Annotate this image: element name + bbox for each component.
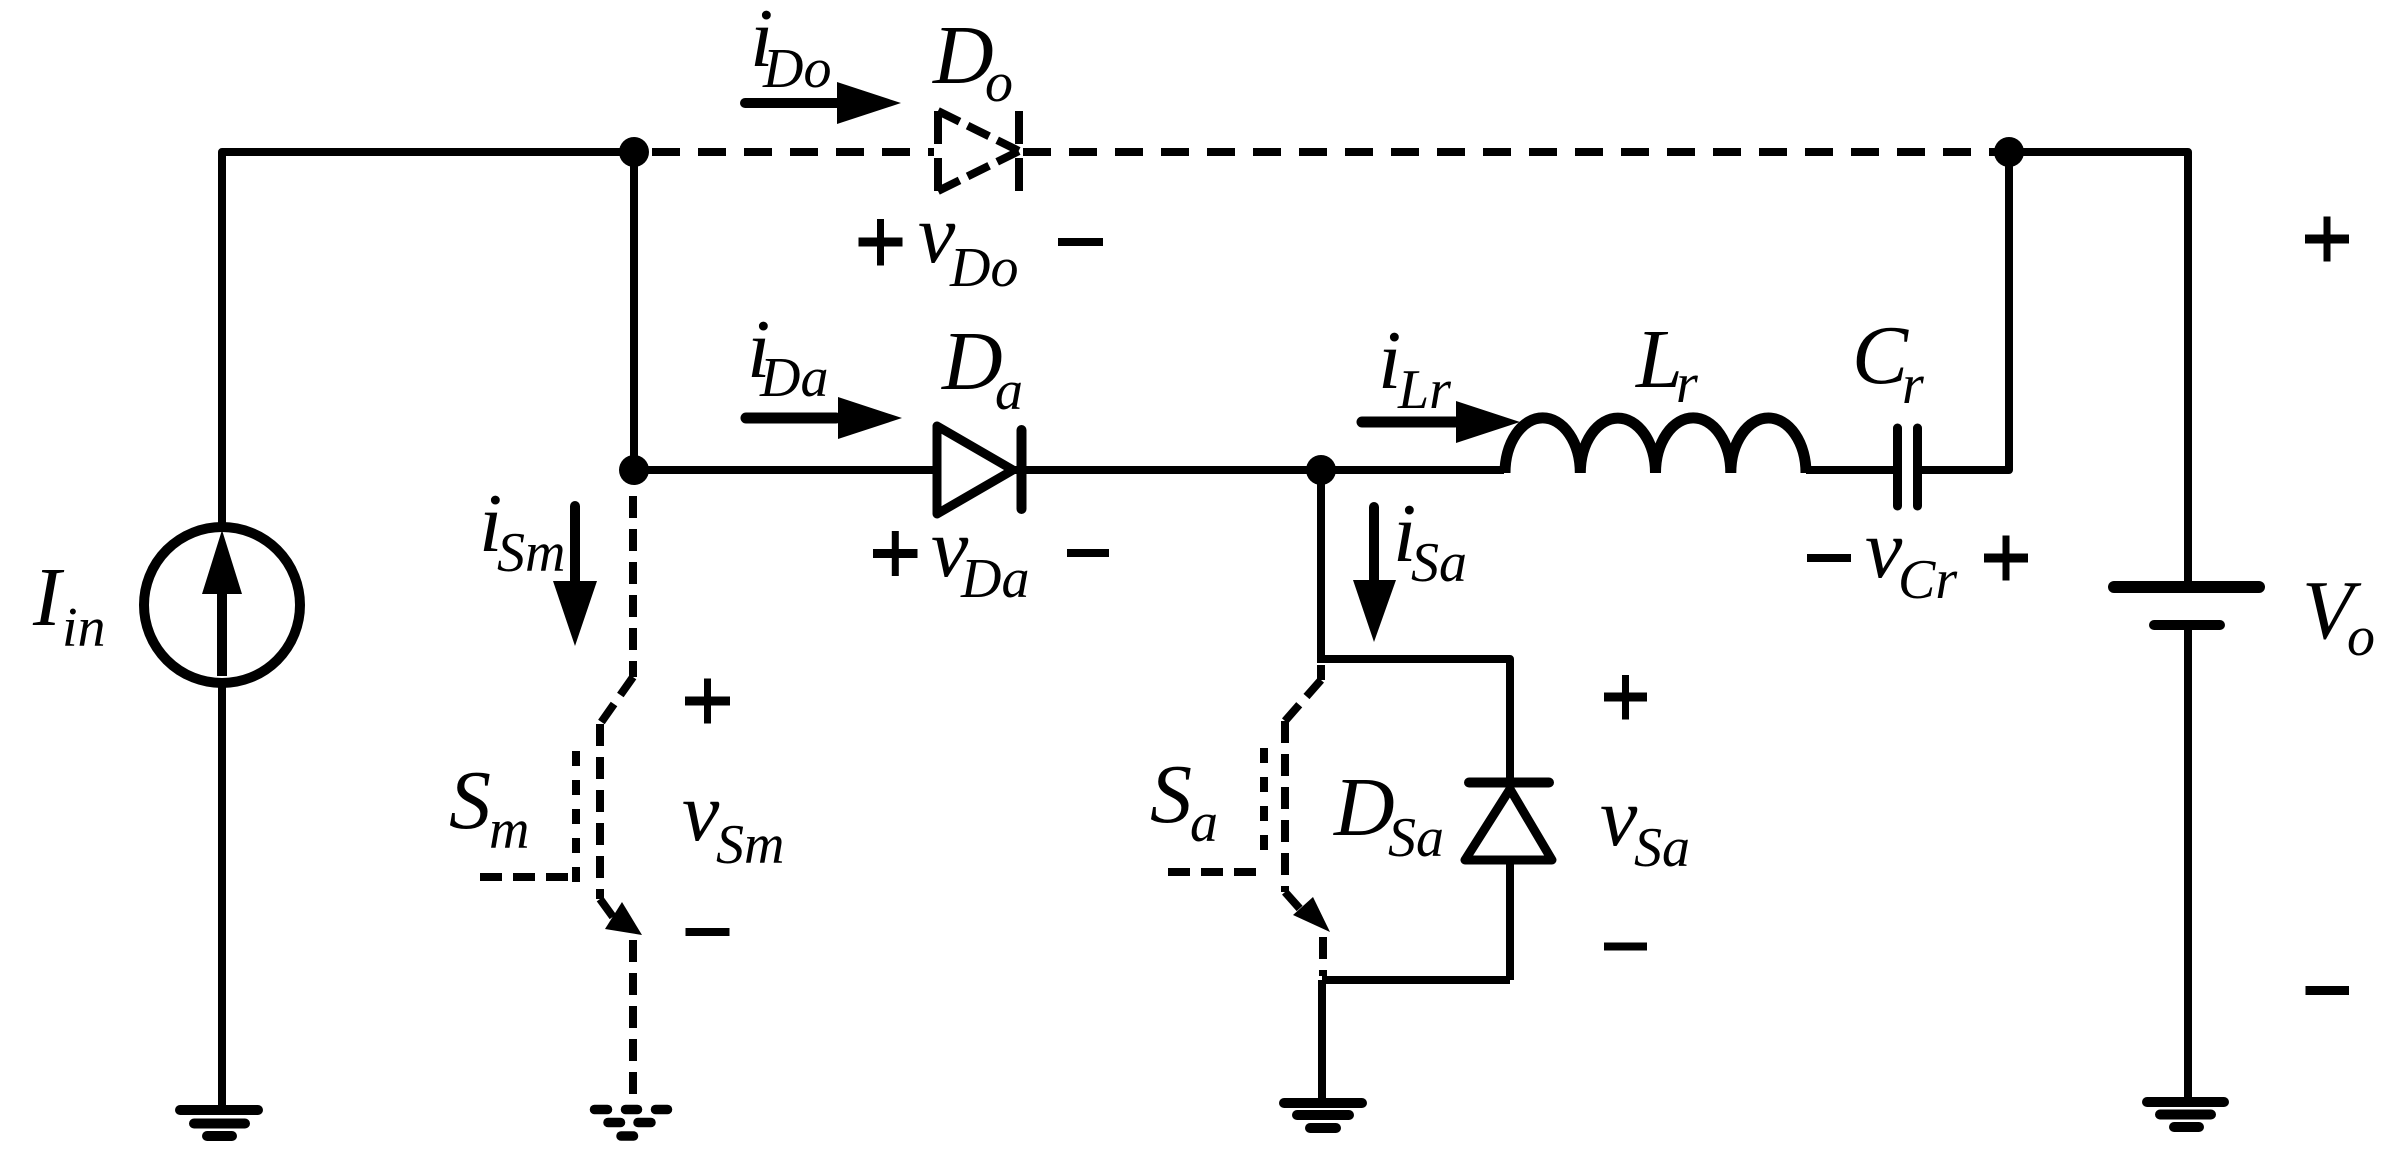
label Sm <box>449 754 529 861</box>
arrow (Sa source) <box>1293 897 1330 932</box>
node B <box>1994 137 2024 167</box>
label vDa (+ v Da -) <box>873 502 1109 610</box>
svg-text:in: in <box>62 597 106 659</box>
arrow iLr <box>1362 401 1520 443</box>
svg-text:v: v <box>682 766 720 859</box>
svg-text:r: r <box>1902 354 1924 416</box>
transistor Sa (dashed switch) <box>1168 665 1323 976</box>
svg-text:v: v <box>1600 771 1638 864</box>
svg-text:Sm: Sm <box>497 522 565 584</box>
node D <box>1306 455 1336 485</box>
svg-text:Do: Do <box>762 38 831 100</box>
label Sa <box>1150 748 1218 854</box>
label Vo <box>2302 564 2375 668</box>
diode Do (dashed) <box>938 111 1019 191</box>
wire Iin to ground <box>218 684 226 1106</box>
svg-text:Lr: Lr <box>1397 359 1451 421</box>
svg-text:Sm: Sm <box>716 814 784 876</box>
svg-text:D: D <box>1333 761 1395 854</box>
wire top-right corner to battery <box>2009 152 2188 581</box>
wire mid rail to Da <box>634 466 934 474</box>
label vSm (+ v Sm -) <box>682 679 784 933</box>
wire Sa top bar <box>1321 659 1510 779</box>
diode DSa <box>1465 783 1552 981</box>
svg-text:o: o <box>985 52 1013 114</box>
label iLr <box>1378 314 1451 421</box>
svg-text:Sa: Sa <box>1388 807 1444 869</box>
wire Cr to corner up to node B <box>1922 152 2009 470</box>
arrow iDo <box>745 82 901 124</box>
transistor Sm (dashed switch) <box>480 496 633 1105</box>
svg-text:D: D <box>941 315 1003 408</box>
svg-text:m: m <box>489 799 529 861</box>
label iSm <box>479 477 565 584</box>
svg-text:Cr: Cr <box>1898 549 1957 611</box>
svg-text:Sa: Sa <box>1634 817 1690 879</box>
svg-text:a: a <box>1190 792 1218 854</box>
svg-text:C: C <box>1852 309 1909 402</box>
svg-text:o: o <box>2347 606 2375 668</box>
svg-text:r: r <box>1676 353 1698 415</box>
label iDo <box>750 0 831 100</box>
node A <box>619 137 649 167</box>
label Da <box>941 315 1023 422</box>
wire Sa to ground <box>1318 980 1326 1098</box>
svg-text:S: S <box>1150 748 1192 841</box>
label vDo (+ v Do -) <box>859 188 1104 299</box>
label Cr <box>1852 309 1924 416</box>
ground (under Sa) <box>1284 1103 1362 1128</box>
wire mid rail Da to node D <box>1013 466 1504 474</box>
arrow iDa <box>746 397 902 439</box>
wire battery to ground <box>2184 630 2192 1097</box>
capacitor Cr <box>1898 428 1918 506</box>
label Do <box>932 9 1013 114</box>
current source Iin <box>144 527 300 683</box>
arrow iSm <box>553 506 597 646</box>
wire left rail <box>222 152 634 527</box>
label plus (Vo) <box>2305 217 2349 262</box>
svg-text:I: I <box>32 551 65 644</box>
ground (dashed, under Sm) <box>595 1110 668 1137</box>
label DSa <box>1333 761 1444 869</box>
label iDa <box>747 303 828 409</box>
ground (under Vo) <box>2147 1102 2224 1127</box>
label Iin <box>32 551 106 659</box>
wire Sa bottom bar <box>1322 976 1510 984</box>
svg-text:Da: Da <box>960 548 1029 610</box>
wire left branch vertical <box>630 152 638 470</box>
svg-text:Do: Do <box>949 237 1018 299</box>
ground (under Iin) <box>180 1110 258 1136</box>
wire Lr to Cr <box>1806 466 1893 474</box>
label Lr <box>1635 313 1698 415</box>
battery Vo <box>2114 587 2259 625</box>
svg-text:Da: Da <box>759 347 828 409</box>
arrow iSa <box>1353 507 1396 642</box>
wire dashed top rail left of Do <box>652 148 934 156</box>
wire dashed top rail right of Do <box>1023 148 2009 156</box>
label vCr (- v Cr +) <box>1807 503 2028 611</box>
svg-text:Sa: Sa <box>1411 532 1467 594</box>
label vSa (+ v Sa -) <box>1600 675 1690 947</box>
wire Sa drain <box>1317 470 1325 663</box>
label iSa <box>1393 487 1467 594</box>
arrow (Sm source) <box>605 902 642 935</box>
svg-text:S: S <box>449 754 491 847</box>
inductor Lr <box>1505 418 1806 473</box>
node C <box>619 455 649 485</box>
diode Da <box>937 426 1022 514</box>
svg-text:a: a <box>995 360 1023 422</box>
label minus (Vo) <box>2306 986 2350 995</box>
